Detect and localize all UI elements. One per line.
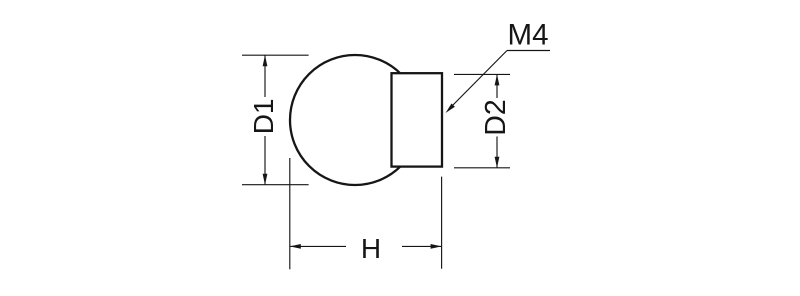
svg-text:D2: D2 bbox=[480, 99, 512, 135]
svg-text:M4: M4 bbox=[508, 19, 549, 52]
svg-text:D1: D1 bbox=[248, 99, 279, 135]
svg-text:H: H bbox=[361, 233, 381, 264]
